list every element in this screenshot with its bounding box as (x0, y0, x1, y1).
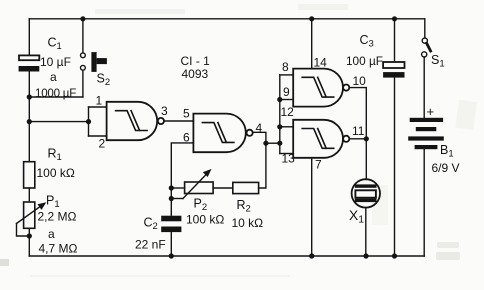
switch S2 (81, 19, 107, 97)
junction gate outputs (364, 136, 369, 141)
junction pin 9 (277, 97, 282, 102)
junction input feed left rail (27, 119, 32, 124)
wire link to input bus (266, 142, 280, 144)
junction P1 wiper (27, 233, 32, 238)
svg-text:CI - 1: CI - 1 (181, 54, 211, 68)
svg-text:+: + (427, 104, 435, 119)
junction P2 wiper (169, 196, 174, 201)
wire to X1 (365, 139, 367, 180)
resistor R1 (24, 162, 35, 188)
op-amp U1 gate 1 (NAND 4093) (107, 102, 164, 140)
svg-text:1: 1 (96, 94, 103, 108)
svg-text:12: 12 (281, 105, 295, 119)
svg-text:C2: C2 (144, 216, 158, 233)
wire pin 14 (311, 19, 313, 69)
junction pin 14 top rail (309, 16, 314, 21)
switch S1 (422, 19, 431, 118)
wire X1 to bottom rail (365, 207, 367, 256)
wire bottom rail (29, 255, 424, 257)
svg-text:P2: P2 (194, 197, 208, 214)
junction bus drive (277, 141, 282, 146)
junction C3 bottom rail (392, 253, 397, 258)
svg-text:8: 8 (282, 60, 289, 74)
junction X1 bottom rail (363, 253, 368, 258)
svg-text:4,7 MΩ: 4,7 MΩ (39, 242, 78, 256)
wire gate3 output down (349, 88, 366, 139)
junction C2 bottom rail (169, 253, 174, 258)
wire pin 6 feedback (171, 143, 193, 216)
wire P1 to bottom rail (28, 228, 30, 256)
svg-text:14: 14 (314, 56, 328, 70)
wire pin 2 (89, 135, 107, 137)
svg-text:B1: B1 (440, 143, 454, 160)
wire gate1 out to gate2 in (pin 3 to 5) (164, 120, 193, 122)
svg-text:C3: C3 (360, 33, 374, 50)
wire P2 to R2 (213, 187, 233, 189)
wire top supply rail (29, 18, 425, 20)
wire R2 to gate2 output loop (253, 132, 266, 188)
svg-text:X1: X1 (349, 208, 364, 226)
svg-text:3: 3 (161, 104, 168, 118)
svg-text:a: a (48, 227, 55, 241)
svg-text:10 kΩ: 10 kΩ (232, 216, 264, 230)
wire gate1 input feed (29, 121, 88, 123)
svg-text:R2: R2 (237, 198, 251, 215)
svg-text:2: 2 (99, 137, 106, 151)
wire left rail above C1 (28, 19, 30, 56)
junction S2 top rail (80, 16, 85, 21)
wire gate4 output (349, 138, 366, 140)
svg-text:2,2 MΩ: 2,2 MΩ (38, 210, 77, 224)
junction P2 left terminal (169, 185, 174, 190)
svg-text:4093: 4093 (182, 67, 209, 81)
svg-text:22 nF: 22 nF (135, 238, 166, 252)
svg-text:100 µF: 100 µF (346, 54, 383, 68)
wire R1 to P1 (28, 188, 30, 202)
junction gate2 output branch (263, 141, 268, 146)
op-amp U1 gate 3 (NAND 4093) (293, 69, 349, 107)
svg-text:9: 9 (283, 85, 290, 99)
wire pin 9 (280, 99, 293, 101)
capacitor C1 (19, 55, 40, 71)
capacitor C2 (161, 216, 181, 256)
wire left rail below C1 (28, 72, 30, 162)
junction S2 left rail (27, 94, 32, 99)
svg-text:S1: S1 (431, 53, 445, 70)
svg-text:R1: R1 (48, 147, 62, 164)
battery B1 (408, 118, 444, 149)
svg-text:6/9 V: 6/9 V (432, 161, 460, 175)
junction C3 top rail (392, 16, 397, 21)
potentiometer P2 (171, 169, 213, 199)
op-amp U1 gate 2 (NAND 4093) (193, 114, 252, 153)
svg-text:11: 11 (352, 124, 365, 138)
svg-text:10: 10 (353, 74, 367, 88)
junction pin 7 bottom rail (309, 253, 314, 258)
resistor R2 (233, 182, 259, 193)
svg-text:10 µF: 10 µF (40, 55, 71, 69)
wire input bus gates 3-4 (279, 75, 281, 154)
junction input tie (86, 119, 91, 124)
svg-text:100 kΩ: 100 kΩ (37, 166, 75, 180)
capacitor C3 (383, 19, 404, 256)
potentiometer P1 (17, 202, 47, 236)
wire pin 13 (280, 153, 293, 155)
svg-text:7: 7 (315, 158, 322, 172)
svg-text:a: a (50, 70, 57, 84)
svg-text:100 kΩ: 100 kΩ (186, 213, 224, 227)
svg-text:P1: P1 (46, 194, 60, 211)
svg-text:1000 µF: 1000 µF (35, 87, 76, 100)
wire pin 7 (311, 158, 313, 256)
wire pin 12 (280, 126, 293, 128)
svg-text:S2: S2 (97, 72, 111, 89)
wire S2 return to left rail (29, 96, 83, 98)
op-amp U1 gate 4 (NAND 4093) (293, 120, 349, 158)
svg-text:C1: C1 (48, 36, 62, 53)
wire pin 1 (89, 106, 107, 108)
wire pin 8 (280, 74, 293, 76)
svg-text:5: 5 (183, 107, 190, 121)
wire pins 1-2 tie (88, 107, 90, 136)
transducer X1 (352, 179, 380, 207)
junction pin 12 (277, 124, 282, 129)
wire battery to bottom rail (423, 149, 425, 256)
